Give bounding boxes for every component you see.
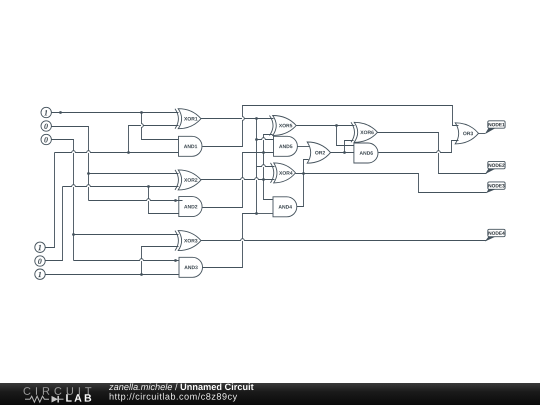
- wire to AND5.top: [257, 139, 274, 141]
- wire carry0 to AND4.bot: [257, 213, 273, 215]
- wire B1 to XOR2.bot: [63, 186, 179, 188]
- node NODE2: [486, 169, 495, 174]
- hop AND6.out over XOR6 drop: [437, 151, 441, 153]
- hop B2 over A0: [72, 151, 76, 153]
- gate AND4: [273, 197, 297, 217]
- wire B1 up: [46, 187, 63, 261]
- hop AND1 riser over XOR1.out: [243, 117, 245, 121]
- junction A1 to XOR2: [87, 172, 90, 175]
- wire B1 branch to AND2.bot: [149, 187, 179, 214]
- wire B0 to AND3.bot: [46, 274, 179, 276]
- wire A1 down: [52, 127, 89, 201]
- hop XOR4.top wire over XOR2 branch: [262, 165, 266, 167]
- gate AND1: [179, 136, 203, 156]
- junction B0 branch: [140, 273, 143, 276]
- hop NODE4 wire over carry riser: [241, 239, 245, 241]
- input 1 (B2): [35, 242, 45, 252]
- logo text CIRCUIT: [24, 387, 92, 395]
- logo diode: [52, 396, 59, 403]
- hop A2 branch over XOR1.bot wire: [142, 124, 144, 128]
- junction AND5.bot wire: [262, 151, 265, 154]
- wire XOR5.out to XOR6.top: [297, 125, 355, 127]
- url: [110, 393, 238, 402]
- wire XOR1.out to XOR5.top: [201, 118, 274, 120]
- junction OR2.out branch: [343, 151, 346, 154]
- wire A1 to AND2.top: [89, 200, 183, 202]
- junction XOR5.out branch: [335, 124, 338, 127]
- wire A2 to XOR1.top: [52, 112, 179, 114]
- gate XOR2: [175, 170, 178, 190]
- wire AND2.out up to AND5.bot: [203, 153, 274, 208]
- gate OR3: [455, 123, 478, 144]
- wire XOR2 branch down to AND4.top: [264, 180, 273, 200]
- hop B1 over A0: [72, 185, 76, 187]
- wire to XOR4.top: [257, 166, 275, 168]
- junction XOR4.out: [302, 172, 305, 175]
- gate XOR1: [175, 109, 178, 129]
- input 1 (A2): [41, 107, 51, 117]
- wire AND3.out up: [203, 214, 257, 268]
- gate XOR5: [270, 116, 274, 136]
- wire XOR5 branch to AND6.top: [337, 126, 354, 146]
- hop A0 over B0 branch: [140, 259, 144, 261]
- input 1 (B0): [35, 269, 45, 279]
- wire XOR4.out to NODE3: [296, 174, 487, 193]
- junction XOR2.out branch: [262, 178, 265, 181]
- wire XOR3.out to NODE4: [201, 240, 487, 242]
- wire OR3.out to NODE1: [479, 133, 486, 135]
- wire OR2 branch to XOR6.bot: [345, 141, 354, 153]
- input 0 (A0): [41, 134, 51, 144]
- hop A1 over B1 branch: [147, 199, 151, 201]
- hop B1 over A1: [87, 185, 91, 187]
- logo text LAB: [66, 394, 91, 401]
- wire AND6.out to OR3.bot: [379, 141, 459, 153]
- logo resistor: [30, 396, 49, 402]
- wire XOR1 branch down: [256, 119, 258, 214]
- junction carry0: [255, 212, 258, 215]
- hop B2 over A1: [87, 151, 91, 153]
- wire A2 branch down: [142, 113, 179, 140]
- junction XOR1.out branch: [255, 117, 258, 120]
- junction B1 branch: [147, 185, 150, 188]
- wire XOR2.out to XOR4.bot: [201, 179, 275, 181]
- junction A0 to XOR3: [72, 233, 75, 236]
- wire A1 to XOR2.top: [89, 173, 179, 175]
- wire AND5.out to OR2.top: [298, 146, 310, 148]
- gate AND6: [354, 143, 378, 163]
- gate OR2: [307, 142, 330, 163]
- wire OR2.bot riser: [297, 160, 309, 207]
- junction B2 branch: [127, 151, 130, 154]
- gate XOR4: [271, 163, 274, 183]
- junction at AND2.top: [174, 199, 177, 202]
- junction at AND3.top: [174, 259, 177, 262]
- wire A0 to XOR3.top: [74, 234, 179, 236]
- wire XOR6.out to NODE2: [378, 133, 487, 174]
- input 0 (A1): [41, 121, 51, 131]
- input 0 (B1): [35, 256, 45, 266]
- hop AND5.top wire over XOR2 branch: [262, 138, 266, 140]
- wire B2 to AND1.bot: [55, 152, 179, 154]
- wire B0 branch to XOR3.bot: [142, 247, 179, 275]
- junction A2 stub: [59, 111, 62, 114]
- gate XOR6: [351, 122, 354, 142]
- node NODE3: [487, 189, 495, 192]
- wire AND1.out up to top rail: [203, 106, 459, 147]
- wire OR2.out to AND6.bot: [331, 152, 354, 154]
- node NODE4: [486, 237, 495, 241]
- gate AND2: [179, 197, 202, 217]
- author / title: [109, 383, 178, 390]
- hop XOR2.out over carry riser: [255, 178, 259, 180]
- gate XOR3: [175, 231, 178, 251]
- wire A0 down: [52, 140, 74, 261]
- node NODE1: [486, 128, 495, 133]
- wire XOR2 branch up to XOR5.bot: [264, 135, 273, 180]
- gate AND3: [179, 257, 203, 277]
- logo wire lead: [25, 398, 30, 400]
- junction at AND5.top wire: [255, 138, 258, 141]
- wire A0 to AND3.top: [74, 260, 179, 262]
- gate AND5: [274, 136, 298, 156]
- hop XOR2.out over AND2 riser: [241, 178, 245, 180]
- footer contents: [0, 375, 540, 405]
- wire B2 up: [46, 153, 55, 248]
- wire B2 branch to XOR1.bot: [129, 126, 179, 153]
- junction A2 branch: [140, 111, 143, 114]
- footer bar: [0, 383, 540, 405]
